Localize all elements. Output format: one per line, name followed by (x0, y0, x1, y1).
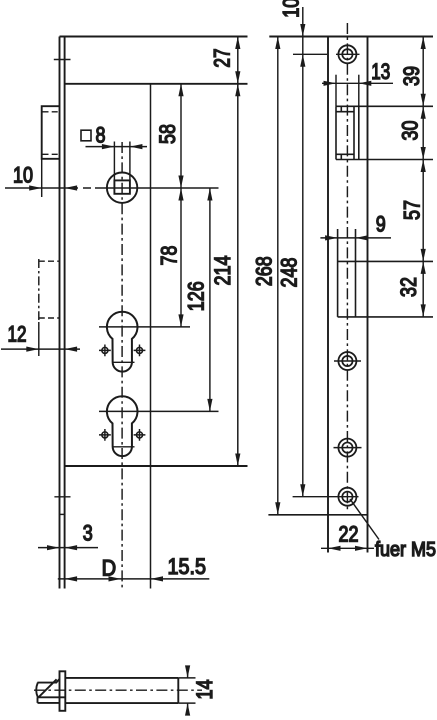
svg-text:268: 268 (252, 256, 277, 286)
dim 14 extension line bottom (178, 702, 195, 704)
latch bolt edge in cutout (353, 106, 355, 159)
dim 58 top arrow (178, 84, 183, 97)
latch cutout right edge (358, 106, 360, 159)
dim 10/248 up arrow (300, 54, 305, 67)
svg-text:22: 22 (339, 521, 359, 546)
dim 214 bottom arrow (235, 454, 240, 467)
case body top edge (65, 677, 178, 679)
screw hole 1 (336, 45, 360, 63)
dimension 12 arrow left-pointing (65, 347, 78, 352)
dimension 10 arrow right-pointing (29, 185, 42, 190)
case top edge (65, 83, 248, 85)
latch cutout inner step top (336, 111, 354, 113)
euro cylinder 2 outline (107, 396, 138, 456)
latch hidden edge upper (dashed) (43, 111, 59, 113)
case body bottom edge (65, 702, 178, 704)
profile reference line x=150.5 (150, 84, 152, 589)
dimension 268 vertical line (277, 37, 279, 515)
dim 27 top arrow (235, 37, 240, 50)
dim 9 arrow right-pointing (325, 235, 338, 240)
dim 58 bottom arrow (178, 176, 183, 189)
dimension line 58/78 vertical (180, 84, 182, 327)
svg-text:30: 30 (398, 121, 423, 141)
euro cylinder 1 outline (107, 312, 138, 372)
dim 57 bottom arrow (421, 249, 426, 262)
deadbolt cutout top edge (338, 260, 433, 262)
faceplate tick upper (54, 59, 71, 61)
cylinder 1 screw hole right (134, 345, 146, 357)
plate right edge (367, 37, 369, 553)
dim 30 bottom arrow (421, 147, 426, 160)
svg-text:10: 10 (279, 0, 304, 18)
plate bottom edge + 268 extension (268, 514, 367, 516)
hole 1 center extension line (293, 53, 327, 55)
dim D left arrow (65, 576, 78, 581)
dim 22 right arrow (355, 546, 368, 551)
bottom view centerline (34, 689, 202, 691)
vertical centerline through spindle and cylinders (121, 142, 123, 589)
latch base plate left cap (37, 697, 39, 703)
svg-text:78: 78 (157, 246, 182, 266)
svg-text:13: 13 (371, 59, 390, 84)
dim 3 arrow right-pointing (47, 545, 60, 550)
faceplate back edge (right vertical) (64, 37, 66, 589)
svg-text:fuer M5: fuer M5 (375, 539, 436, 561)
faceplate front edge (left vertical) (59, 37, 61, 589)
dim 126 bottom arrow (207, 399, 212, 412)
dim 22 left arrow (328, 546, 341, 551)
dim 10 down arrow (300, 24, 305, 37)
dim 32 top arrow (421, 261, 426, 274)
latch base plate bottom (38, 702, 60, 704)
dimension 3 line (faceplate thickness) (38, 547, 98, 549)
euro cylinder 1 lobe tick (113, 361, 135, 363)
dim 13 arrow right-pointing (324, 81, 337, 86)
svg-text:10: 10 (13, 163, 33, 188)
svg-text:39: 39 (399, 66, 424, 86)
latch head top edge (37, 679, 59, 683)
dim 32 bottom arrow (421, 304, 426, 317)
latch cutout left edge (335, 106, 337, 159)
dimension 22 line (321, 547, 374, 549)
svg-text:15.5: 15.5 (168, 554, 207, 579)
svg-text:14: 14 (192, 680, 217, 700)
svg-text:248: 248 (276, 258, 301, 288)
screw hole 4 (fuer M5) (338, 488, 356, 506)
svg-text:3: 3 (83, 521, 93, 546)
square symbol of label (81, 130, 91, 141)
latch cutout top edge (336, 105, 433, 107)
dim 13 extension line right (358, 75, 360, 107)
dimension line 126 vertical (209, 188, 211, 411)
svg-text:57: 57 (400, 200, 425, 220)
svg-text:58: 58 (155, 124, 180, 144)
dim 30 top arrow (421, 106, 426, 119)
plate top edge (269, 36, 433, 38)
faceplate flange (60, 671, 66, 711)
case right edge / dim line 27+214 (237, 37, 239, 467)
cylinder 2 horizontal centerline (99, 410, 219, 412)
svg-text:12: 12 (8, 321, 27, 346)
spindle square 8mm (114, 180, 129, 193)
latch head bevel diagonal (39, 679, 57, 697)
dim 214 top arrow (235, 84, 240, 97)
screw hole 3 (334, 439, 362, 457)
dimension 8 arrow left-pointing (130, 144, 143, 149)
dimension 10 arrow left-pointing (65, 185, 78, 190)
spindle follower circle (107, 173, 137, 203)
dim 268 bottom arrow (275, 502, 280, 515)
dimension 9 line (320, 237, 391, 239)
dimension 12 line (1, 348, 80, 350)
dim 126 top arrow (207, 188, 212, 201)
top edge line of lock body (60, 36, 248, 38)
svg-text:126: 126 (183, 281, 208, 311)
latch cutout step square bottom (340, 154, 342, 159)
dim 14 up arrow (185, 703, 190, 716)
euro cylinder 2 lobe tick (113, 446, 135, 448)
svg-text:27: 27 (210, 48, 235, 67)
dim 9 arrow left-pointing (356, 235, 369, 240)
faceplate tick lower (54, 496, 70, 498)
dim 57 top arrow (421, 160, 426, 173)
deadbolt cutout bottom edge (338, 316, 433, 318)
dim 78 bottom arrow (178, 314, 183, 327)
deadbolt cutout left edge + extension (337, 229, 339, 317)
svg-text:32: 32 (396, 277, 421, 297)
dim 15.5 right arrow (151, 576, 164, 581)
case bottom edge (65, 465, 248, 467)
latch hidden edge lower (dashed) (43, 153, 59, 155)
plate vertical centerline (346, 23, 348, 511)
chained dimension line 39/30/57/32 (422, 37, 424, 317)
dimension D / 15.5 line (58, 578, 210, 580)
hidden deadbolt bottom edge (dashed) (39, 317, 60, 319)
dimension 10/248 shared vertical line (302, 7, 304, 497)
dimension 8 arrow right-pointing (102, 144, 115, 149)
dimension 10 line (latch projection) (5, 187, 78, 189)
latch cutout inner step bottom (336, 153, 354, 155)
latch bolt protrusion outline (42, 106, 60, 159)
faceplate short tick at plate bottom height (60, 513, 65, 515)
cylinder 1 horizontal centerline (99, 326, 190, 328)
dimension 8 line (86, 146, 148, 148)
dim 268 top arrow (275, 37, 280, 50)
dim 39 top arrow (421, 37, 426, 50)
dim 13 arrow left-pointing (359, 81, 372, 86)
hole 4 center extension line (293, 496, 359, 498)
dim D right arrow (109, 576, 122, 581)
dim 14 vertical line (187, 666, 189, 715)
spindle horizontal centerline (83, 187, 219, 189)
deadbolt cutout right edge + extension (355, 229, 357, 317)
spindle square extension line left (113, 142, 115, 181)
hidden deadbolt front edge (dash-dot) (38, 259, 40, 320)
dim 27 bottom arrow (235, 71, 240, 84)
screw hole 2 (334, 352, 361, 370)
svg-text:D: D (102, 556, 117, 581)
spindle square extension line right (129, 142, 131, 181)
hidden deadbolt top edge (dashed) (39, 260, 60, 262)
cylinder 2 screw hole right (134, 429, 146, 441)
dim 14 down arrow (185, 665, 190, 678)
dim 13 extension line left (335, 75, 337, 107)
deadbolt extension line to dim 12 (38, 322, 40, 356)
plate left edge (327, 37, 329, 553)
cylinder 2 screw hole left (99, 429, 111, 441)
latch base plate top (38, 696, 66, 698)
dim 78 top arrow (178, 188, 183, 201)
latch cutout step square top (340, 106, 342, 111)
svg-text:8: 8 (96, 122, 106, 147)
svg-text:9: 9 (376, 212, 386, 237)
leader line fuer M5 (350, 499, 379, 540)
latch head rounded tip (36, 683, 38, 698)
case body right edge (177, 678, 179, 703)
latch front extension line down to dim 10 (41, 159, 43, 197)
dim 248 bottom arrow (300, 484, 305, 497)
latch cutout bottom edge (336, 159, 433, 161)
dimension 13 line (322, 82, 393, 84)
dim 3 arrow left-pointing (65, 545, 78, 550)
dim 39 bottom arrow (421, 94, 426, 107)
dim 14 extension line top (178, 677, 195, 679)
dimension 12 arrow right-pointing (26, 347, 39, 352)
svg-text:214: 214 (210, 256, 235, 286)
cylinder 1 screw hole left (99, 345, 111, 357)
